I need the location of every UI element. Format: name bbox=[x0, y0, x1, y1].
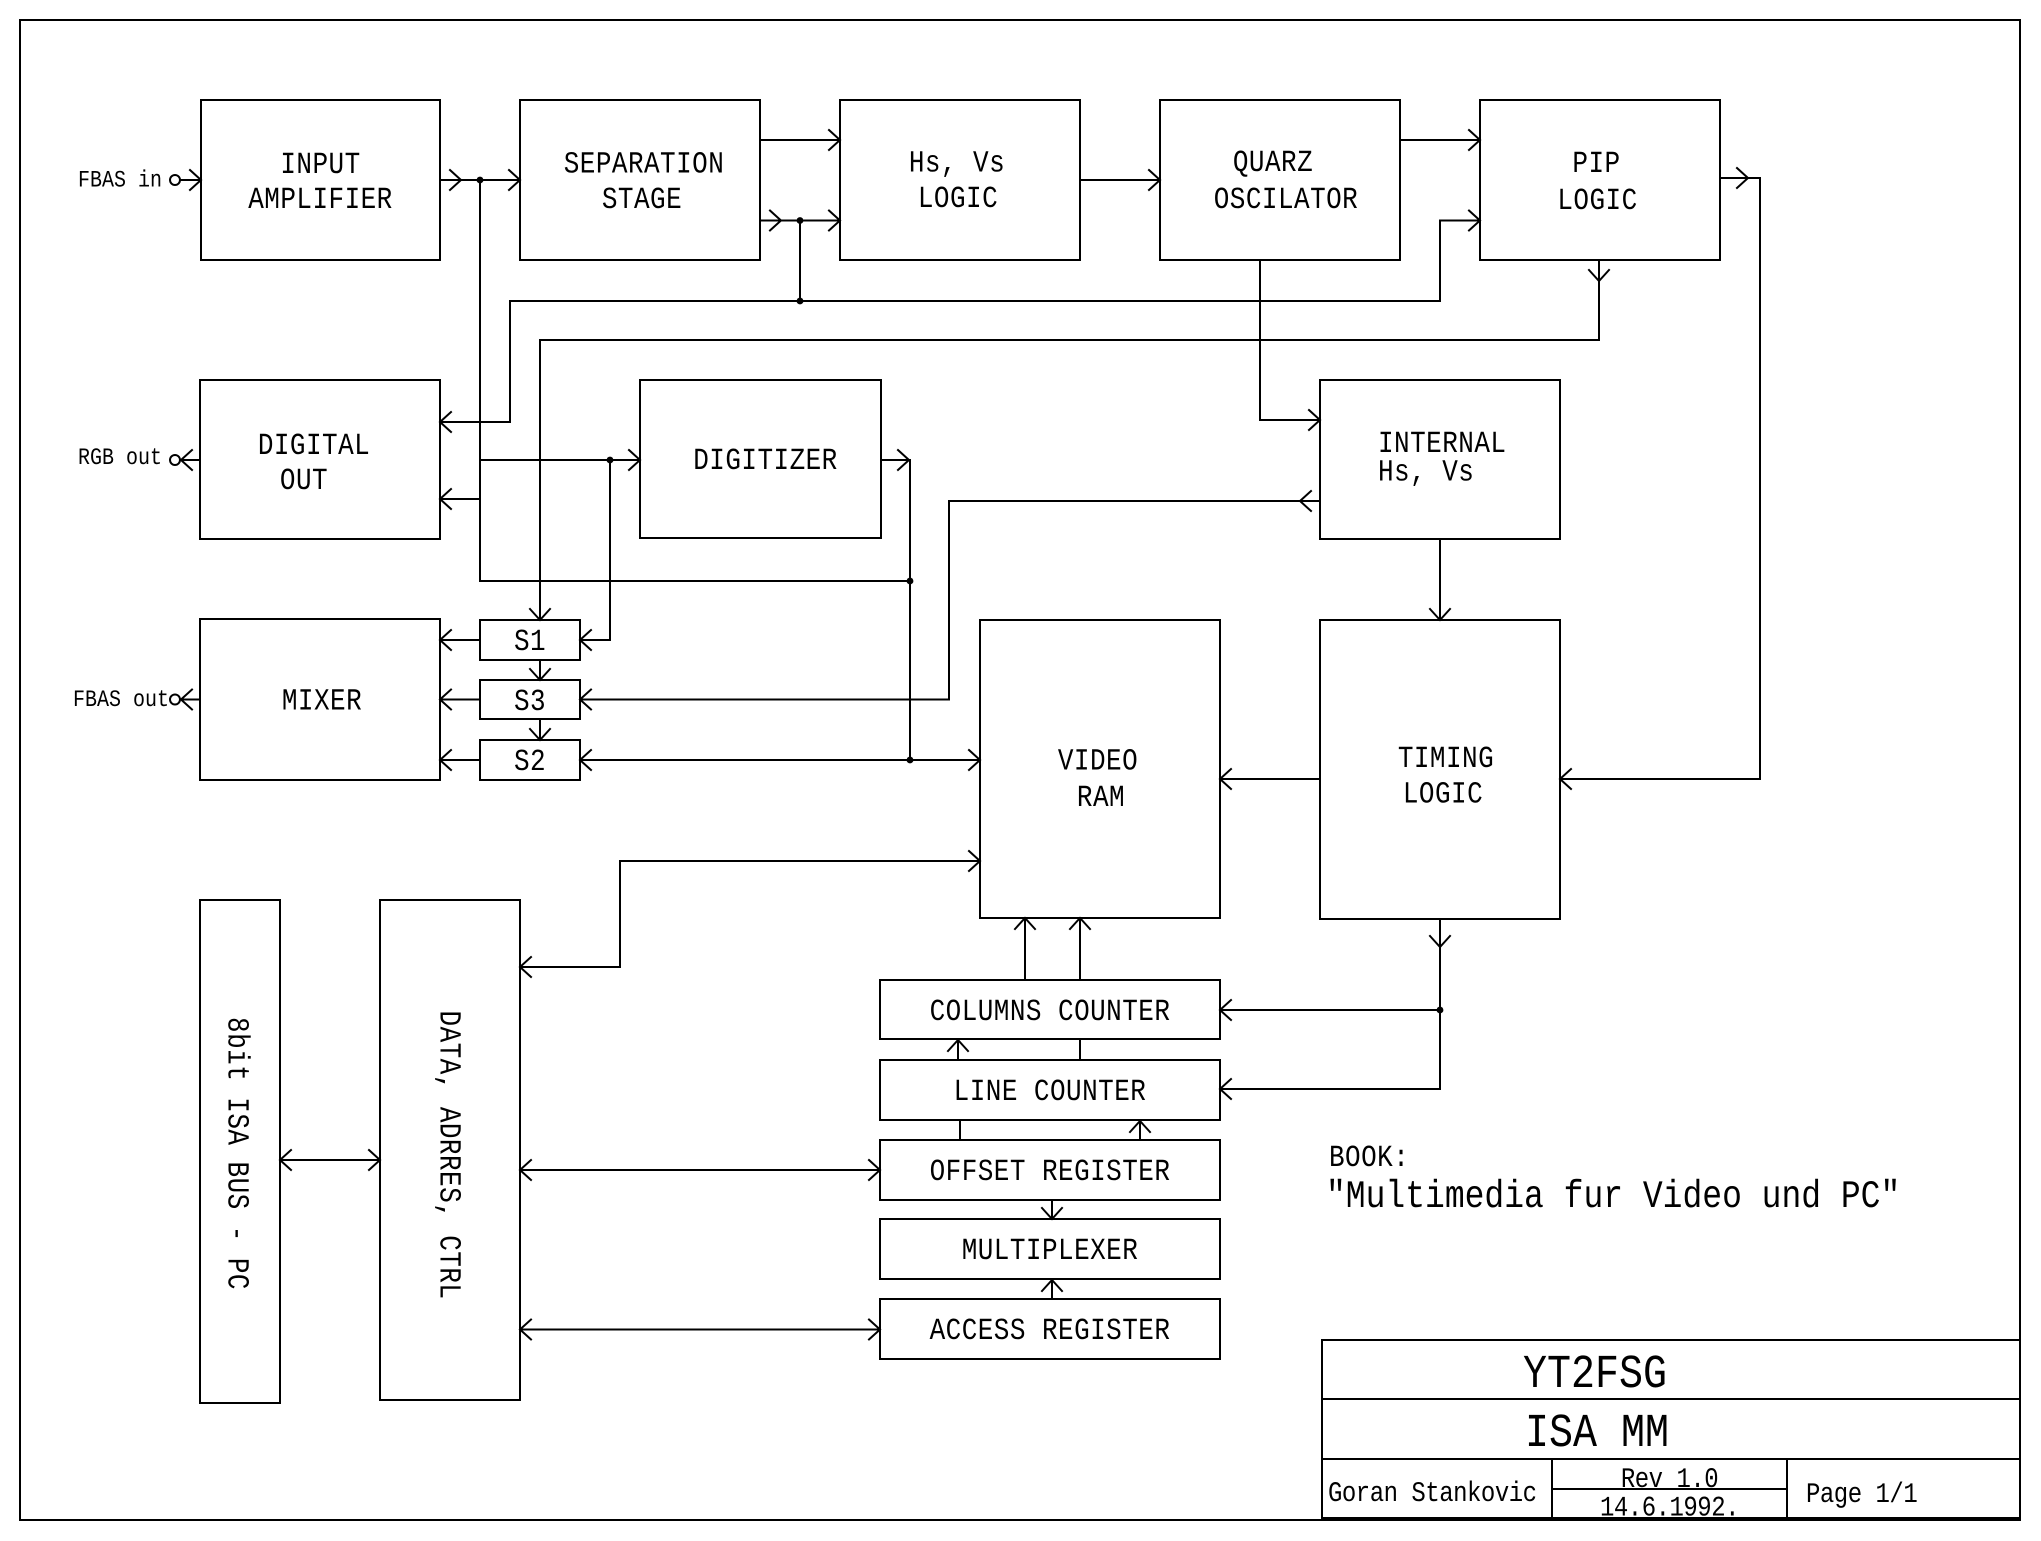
svg-text:ISA MM: ISA MM bbox=[1525, 1408, 1669, 1461]
svg-text:S3: S3 bbox=[514, 684, 546, 719]
svg-text:VIDEO: VIDEO bbox=[1058, 744, 1138, 779]
svg-text:S2: S2 bbox=[514, 744, 546, 779]
svg-text:DIGITAL: DIGITAL bbox=[258, 428, 370, 463]
svg-text:OFFSET REGISTER: OFFSET REGISTER bbox=[930, 1154, 1171, 1189]
svg-text:BOOK:: BOOK: bbox=[1329, 1140, 1409, 1175]
svg-text:SEPARATION: SEPARATION bbox=[564, 147, 725, 182]
svg-text:Goran Stankovic: Goran Stankovic bbox=[1328, 1479, 1537, 1511]
svg-text:FBAS in: FBAS in bbox=[78, 168, 162, 195]
svg-text:Hs, Vs: Hs, Vs bbox=[1378, 455, 1474, 490]
svg-text:Page 1/1: Page 1/1 bbox=[1806, 1480, 1917, 1512]
svg-text:AMPLIFIER: AMPLIFIER bbox=[248, 182, 392, 217]
svg-text:LOGIC: LOGIC bbox=[1403, 776, 1483, 811]
svg-text:MULTIPLEXER: MULTIPLEXER bbox=[962, 1233, 1139, 1268]
svg-text:14.6.1992.: 14.6.1992. bbox=[1600, 1493, 1739, 1525]
svg-text:INPUT: INPUT bbox=[280, 147, 360, 182]
svg-text:MIXER: MIXER bbox=[282, 684, 362, 719]
svg-text:RAM: RAM bbox=[1077, 780, 1125, 815]
svg-text:STAGE: STAGE bbox=[602, 182, 682, 217]
svg-text:"Multimedia fur Video und PC": "Multimedia fur Video und PC" bbox=[1326, 1175, 1900, 1219]
svg-text:PIP: PIP bbox=[1572, 146, 1620, 181]
svg-text:OSCILATOR: OSCILATOR bbox=[1214, 182, 1358, 217]
svg-text:DATA, ADRRES, CTRL: DATA, ADRRES, CTRL bbox=[431, 1011, 466, 1300]
svg-text:S1: S1 bbox=[514, 624, 546, 659]
svg-text:YT2FSG: YT2FSG bbox=[1523, 1349, 1667, 1402]
svg-text:DIGITIZER: DIGITIZER bbox=[693, 443, 837, 478]
svg-text:LOGIC: LOGIC bbox=[1557, 183, 1637, 218]
svg-text:LINE COUNTER: LINE COUNTER bbox=[954, 1074, 1147, 1109]
svg-text:Rev 1.0: Rev 1.0 bbox=[1621, 1465, 1718, 1497]
svg-text:COLUMNS COUNTER: COLUMNS COUNTER bbox=[930, 994, 1171, 1029]
svg-text:QUARZ: QUARZ bbox=[1233, 145, 1313, 180]
svg-text:TIMING: TIMING bbox=[1398, 741, 1494, 776]
svg-text:8bit ISA BUS - PC: 8bit ISA BUS - PC bbox=[219, 1017, 254, 1290]
svg-text:FBAS out: FBAS out bbox=[73, 687, 169, 714]
svg-text:OUT: OUT bbox=[280, 463, 328, 498]
svg-text:ACCESS REGISTER: ACCESS REGISTER bbox=[930, 1313, 1171, 1348]
svg-text:Hs, Vs: Hs, Vs bbox=[909, 146, 1005, 181]
svg-text:RGB out: RGB out bbox=[78, 445, 162, 472]
svg-text:LOGIC: LOGIC bbox=[918, 181, 998, 216]
